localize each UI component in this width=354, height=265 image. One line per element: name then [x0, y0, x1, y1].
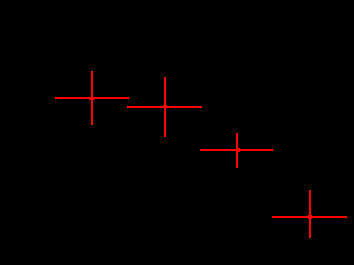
data point 1 marker	[89, 97, 94, 100]
data point 3 y-error bar	[236, 133, 238, 168]
data point 1 x-error bar	[55, 97, 129, 99]
data point 4 x-error bar	[272, 216, 347, 218]
data point 4 y-error bar	[309, 190, 311, 238]
data point 1 y-error bar	[91, 71, 93, 125]
data point 3 marker	[236, 148, 240, 152]
data point 2 x-error bar	[127, 106, 202, 108]
data point 4 marker	[308, 215, 312, 219]
data point 2 y-error bar	[164, 77, 166, 137]
data point 3 x-error bar	[200, 149, 273, 151]
data point 2 marker	[163, 105, 167, 108]
